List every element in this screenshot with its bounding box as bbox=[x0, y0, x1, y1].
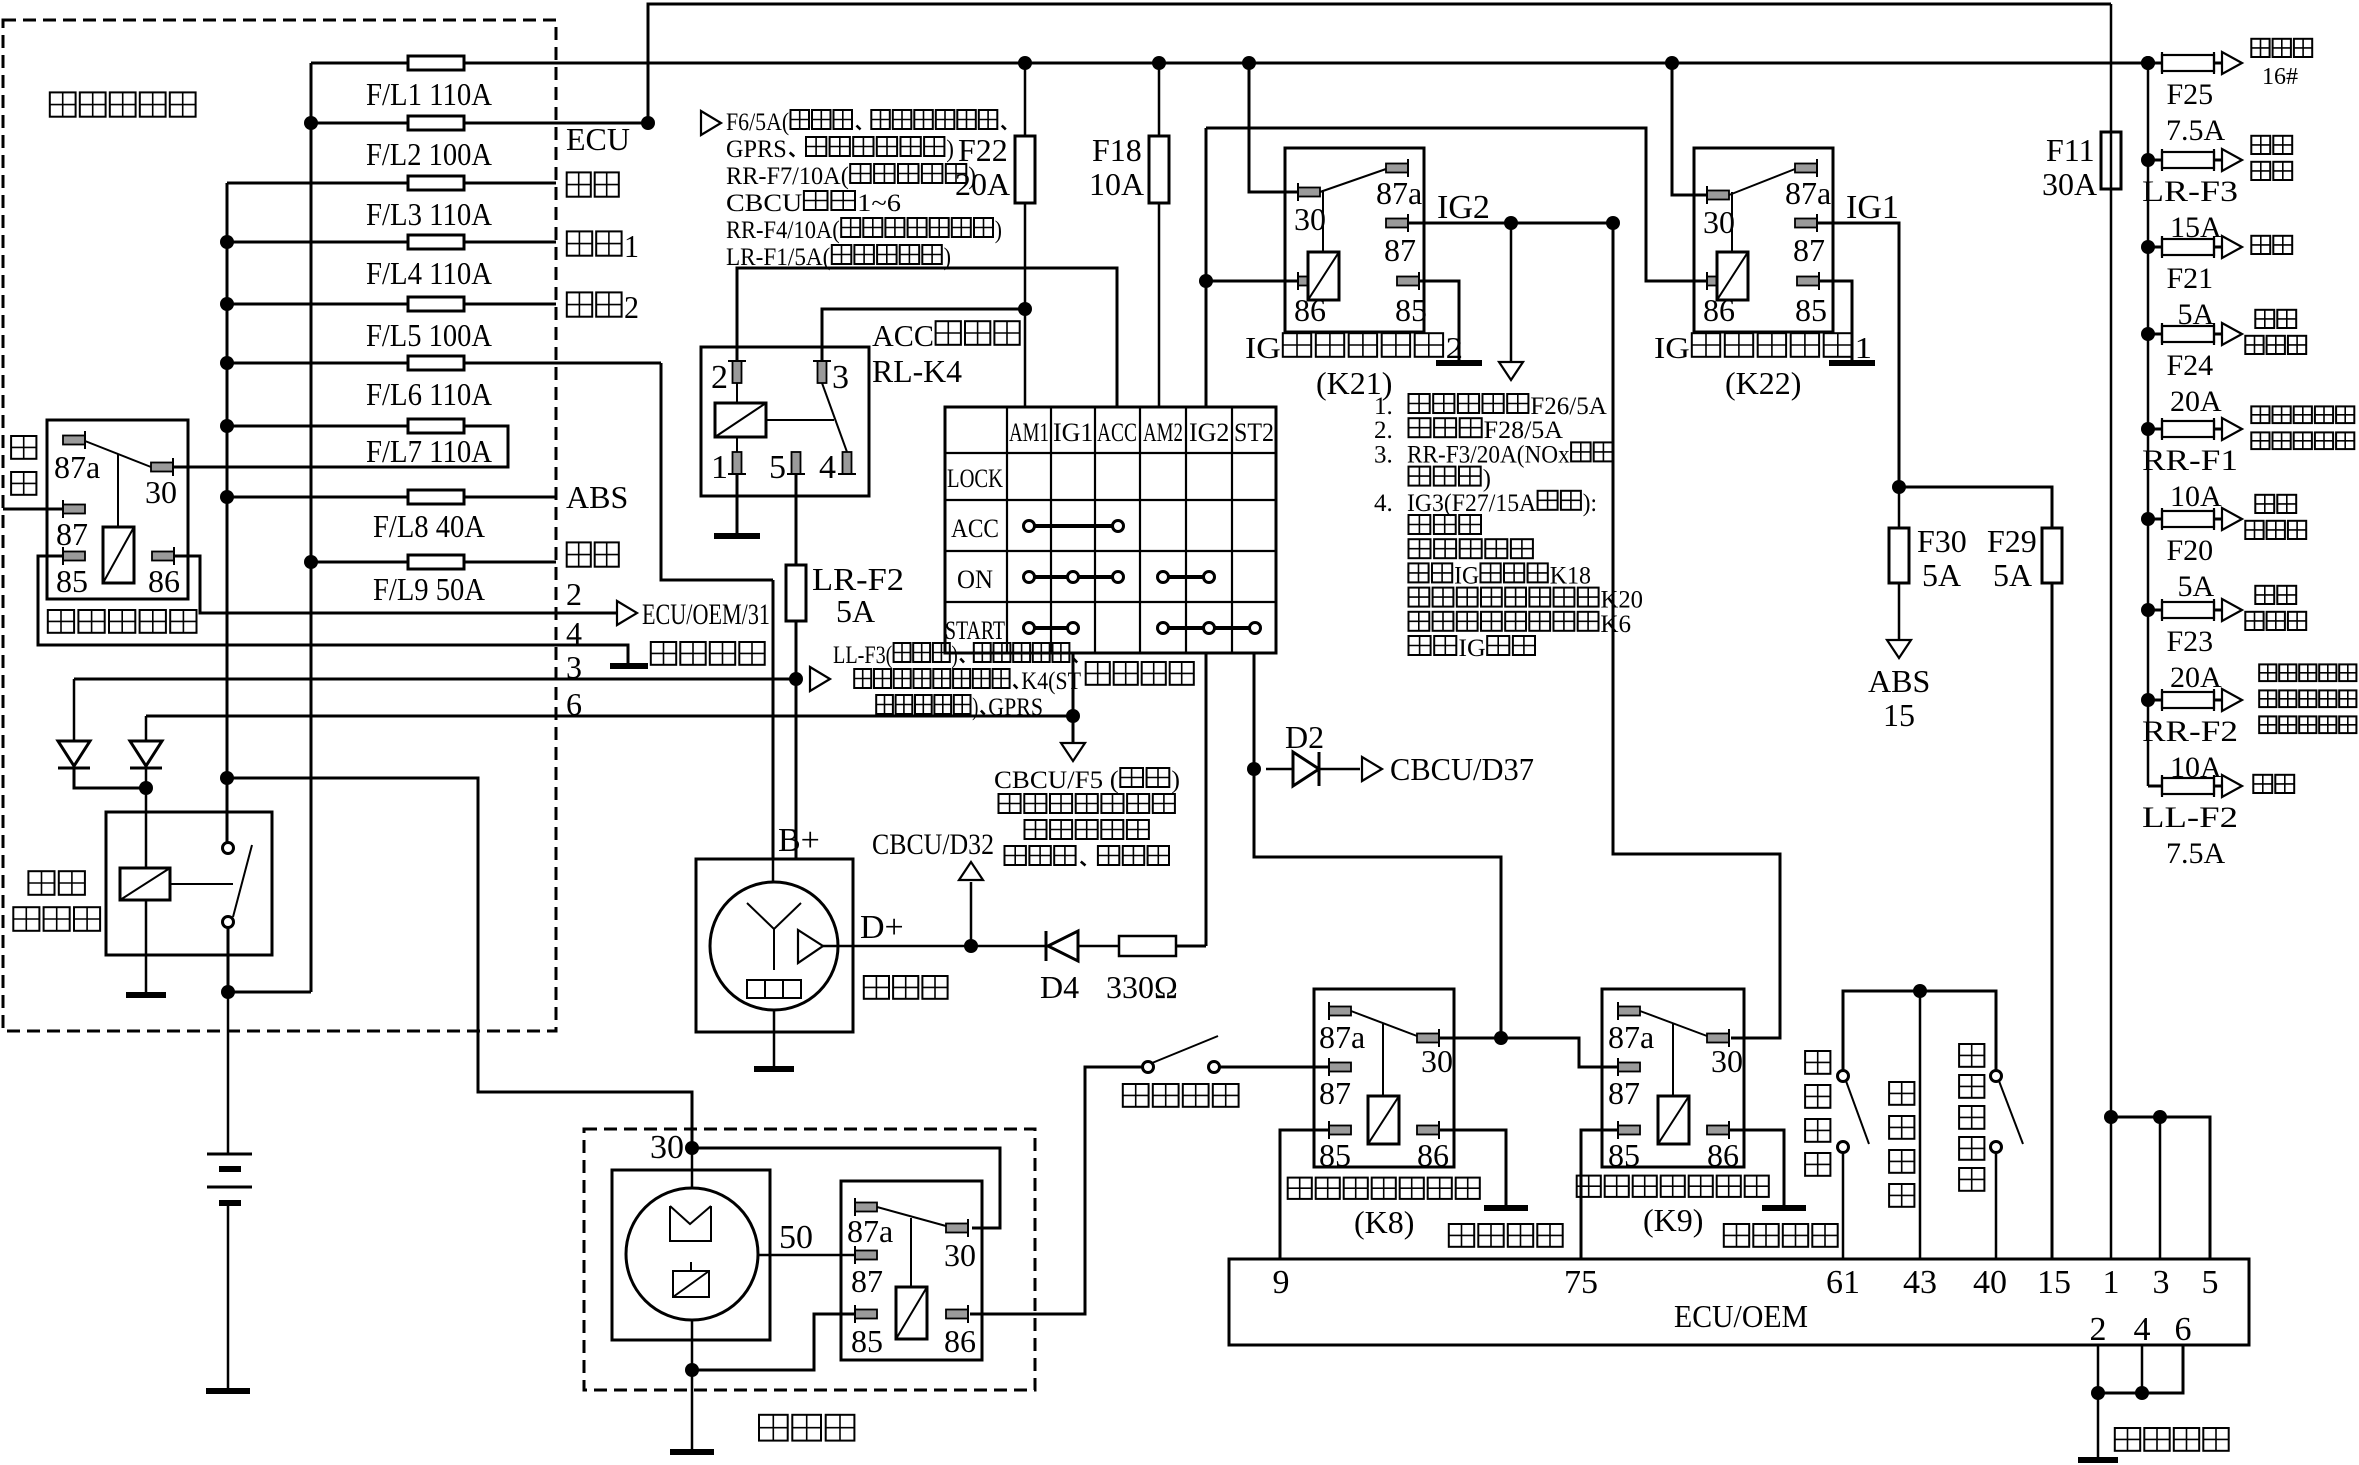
svg-text:ACC: ACC bbox=[951, 514, 999, 543]
fuse F22 20A bbox=[1015, 136, 1035, 203]
svg-text:D4: D4 bbox=[1040, 969, 1079, 1005]
svg-text:40: 40 bbox=[1973, 1264, 2007, 1301]
junction starter 30 bbox=[685, 1141, 699, 1155]
ground bar K22 85 bbox=[1829, 360, 1875, 366]
svg-text:4: 4 bbox=[2134, 1311, 2151, 1348]
svg-text:30: 30 bbox=[1711, 1043, 1743, 1079]
arrow output F20 bbox=[2222, 508, 2242, 530]
wire left fuse bus x227 bbox=[226, 183, 229, 848]
wire IG2 node to K21 86 bbox=[1206, 280, 1298, 283]
wire row6 wake line from right diode to IG1 column bbox=[146, 715, 1075, 718]
svg-text:IG: IG bbox=[1458, 635, 1485, 662]
svg-text:GPRS: GPRS bbox=[726, 136, 787, 163]
svg-text:5: 5 bbox=[769, 449, 786, 486]
wire alternator ground bbox=[773, 1010, 776, 1066]
svg-text:7.5A: 7.5A bbox=[2166, 114, 2226, 147]
label 预热继电器 bbox=[48, 610, 74, 633]
wire to ECU 5 bbox=[2111, 1117, 2210, 1259]
svg-text:87: 87 bbox=[851, 1263, 883, 1299]
label 总开关 bbox=[13, 907, 39, 931]
svg-text:F6/5A(: F6/5A( bbox=[726, 109, 789, 136]
relay blade starter bbox=[877, 1207, 946, 1226]
wire ST2 column down to D2 node bbox=[1253, 653, 1256, 769]
arrow output LR-F3 bbox=[2222, 149, 2242, 171]
wire K9 86 to ground bbox=[1729, 1130, 1784, 1206]
resistor 330 ohm bbox=[1119, 936, 1176, 956]
relay coil master switch bbox=[120, 868, 170, 900]
wire F/L6 to B+ riser bbox=[661, 363, 773, 580]
relay starter protection K8 box bbox=[1314, 989, 1454, 1167]
wire F/L7 row to preheat relay 30 bbox=[173, 426, 508, 467]
relay blade ACC bbox=[822, 383, 847, 452]
fuse F23 20A bbox=[2162, 599, 2214, 621]
fuse LR-F3 15A bbox=[2162, 149, 2214, 171]
label 缸体搭铁 ECU bbox=[2115, 1428, 2140, 1451]
fuse F/L9 50A bbox=[408, 555, 464, 569]
alternator regulator rect bbox=[747, 980, 801, 998]
arrow F6/5A list bbox=[701, 111, 721, 135]
junction bus RR-F2 bbox=[2141, 693, 2155, 707]
relay coil ACC bbox=[715, 403, 766, 437]
wire switch common bus bbox=[1843, 991, 1996, 1071]
svg-text:30: 30 bbox=[1421, 1043, 1453, 1079]
svg-text:10A: 10A bbox=[1089, 166, 1144, 202]
wire K8 86 to ground bbox=[1439, 1130, 1506, 1206]
svg-text:LR-F3: LR-F3 bbox=[2142, 175, 2238, 208]
svg-text:2: 2 bbox=[624, 289, 639, 325]
svg-text:85: 85 bbox=[56, 563, 88, 599]
svg-text:ECU/OEM/31: ECU/OEM/31 bbox=[642, 598, 770, 631]
junction bus RR-F1 bbox=[2141, 422, 2155, 436]
svg-text:85: 85 bbox=[1795, 292, 1827, 328]
ignition contacts row START bbox=[1033, 626, 1068, 630]
junction F/L9 bus bbox=[304, 555, 318, 569]
pin 87a K9 bbox=[1618, 1002, 1640, 1020]
label destination F21 bbox=[2251, 236, 2270, 254]
pin 87 K21 bbox=[1386, 214, 1408, 232]
diode D-left row3 bbox=[73, 679, 76, 741]
wire IG1 column to wake node bbox=[1072, 653, 1075, 743]
pin 87a K22 bbox=[1795, 159, 1817, 177]
junction IG2 column K21 86 bbox=[1199, 274, 1213, 288]
relay IG power relay 1 K22 box bbox=[1694, 148, 1833, 332]
junction feeder F18 bbox=[1152, 56, 1166, 70]
fuse F/L4 110A bbox=[408, 235, 464, 249]
svg-text:87a: 87a bbox=[54, 449, 100, 485]
label destination F24 bbox=[2255, 310, 2274, 328]
svg-text:86: 86 bbox=[148, 563, 180, 599]
svg-text:30: 30 bbox=[650, 1129, 684, 1166]
svg-text:2: 2 bbox=[711, 359, 728, 396]
svg-text:5A: 5A bbox=[1922, 557, 1961, 593]
svg-text:3: 3 bbox=[2153, 1264, 2170, 1301]
label 远程起动继电器 bbox=[1577, 1176, 1601, 1197]
svg-text:F18: F18 bbox=[1092, 132, 1142, 168]
svg-text:ON: ON bbox=[957, 565, 993, 594]
pin 5 ACC relay bbox=[787, 452, 805, 474]
contact upper master switch bbox=[223, 843, 234, 854]
wire D4 to resistor bbox=[1078, 945, 1119, 948]
svg-text:9: 9 bbox=[1273, 1264, 1290, 1301]
junction bus F24 bbox=[2141, 327, 2155, 341]
svg-text:30: 30 bbox=[1294, 201, 1326, 237]
junction x227 bus F/L6 bbox=[220, 356, 234, 370]
junction bus F21 bbox=[2141, 240, 2155, 254]
wire K22 87 IG1 output bbox=[1817, 223, 1899, 487]
svg-text:CBCU: CBCU bbox=[726, 190, 802, 217]
wire switch ground to ECU 43 bbox=[1919, 991, 1922, 1259]
wire coil to blade ACC bbox=[766, 419, 834, 421]
wire F/L8 row bbox=[227, 496, 556, 499]
svg-text:RL-K4: RL-K4 bbox=[872, 353, 962, 389]
svg-text:): ) bbox=[1483, 466, 1491, 493]
switch 空档开关 bbox=[1143, 1062, 1154, 1073]
svg-text:): ) bbox=[1171, 767, 1180, 794]
relay coil preheat bbox=[103, 527, 134, 583]
junction F22 ACC relay pin3 bbox=[1018, 302, 1032, 316]
svg-text:LOCK: LOCK bbox=[947, 464, 1003, 493]
pin 30 starter relay bbox=[946, 1219, 968, 1237]
label 整车1 bbox=[567, 231, 592, 255]
ground bar K8 86 bbox=[1484, 1205, 1528, 1211]
battery bbox=[227, 992, 230, 1153]
pin 87a K21 bbox=[1386, 159, 1408, 177]
svg-text:D2: D2 bbox=[1285, 719, 1324, 755]
pin 85 preheat bbox=[63, 547, 85, 565]
wire battery node to main bus bbox=[228, 991, 311, 994]
svg-text:IG2: IG2 bbox=[1189, 418, 1229, 447]
switch blade master switch bbox=[233, 845, 252, 917]
fuse F/L8 40A bbox=[408, 490, 464, 504]
svg-text:F28/5A: F28/5A bbox=[1484, 417, 1563, 444]
svg-text:RR-F1: RR-F1 bbox=[2142, 444, 2238, 477]
wire ECU bottom pins to chassis ground bbox=[2097, 1345, 2100, 1458]
label 起动保护继电器 bbox=[1288, 1178, 1312, 1199]
junction starter ground bbox=[685, 1363, 699, 1377]
svg-text:IG: IG bbox=[1454, 562, 1479, 589]
wire motor 50 to relay 87 bbox=[758, 1254, 855, 1257]
wire relay 85 to motor ground node bbox=[692, 1314, 855, 1370]
svg-text:(K8): (K8) bbox=[1354, 1204, 1414, 1240]
svg-text:START: START bbox=[945, 616, 1005, 645]
wire starter 30 loop to relay 30 bbox=[692, 1148, 1000, 1228]
svg-text:86: 86 bbox=[1707, 1137, 1739, 1173]
alternator 发电机 box bbox=[696, 859, 853, 1032]
label 底盘配电盒 bbox=[50, 92, 76, 116]
arrow output F23 bbox=[2222, 599, 2242, 621]
wire resistor to IG2 column bbox=[1176, 945, 1206, 948]
pin 86 starter relay bbox=[946, 1305, 968, 1323]
pin 87 preheat bbox=[63, 500, 85, 518]
label destination F23 bbox=[2255, 586, 2274, 604]
wire ECU 9 to K8 85 bbox=[1280, 1130, 1329, 1259]
svg-text:30: 30 bbox=[145, 474, 177, 510]
svg-text:2.: 2. bbox=[1374, 417, 1393, 444]
relay blade K8 bbox=[1351, 1011, 1417, 1036]
pin 85 K21 bbox=[1397, 272, 1419, 290]
wire K8 30 to K9 87 bbox=[1439, 1038, 1618, 1067]
wire aux start switch to ECU 40 bbox=[1995, 1152, 1998, 1259]
svg-text:2: 2 bbox=[2090, 1311, 2107, 1348]
wire coil to blade K22 bbox=[1731, 192, 1733, 252]
diode D-right row6 bbox=[145, 716, 148, 741]
starter 起动机 dashed box bbox=[584, 1129, 1035, 1390]
svg-text:ECU/OEM: ECU/OEM bbox=[1674, 1298, 1808, 1334]
svg-text:IG1: IG1 bbox=[1846, 189, 1899, 226]
wire IG1 to F30 ABS bbox=[1898, 487, 1901, 640]
relay ACC RL-K4 box bbox=[701, 347, 869, 496]
svg-text:LL-F3(: LL-F3( bbox=[833, 642, 892, 669]
label 电源 bbox=[28, 871, 54, 895]
wire kill switch to ECU 61 bbox=[1842, 1152, 1845, 1259]
wire coil to pin1 bbox=[736, 437, 738, 452]
wire lower contact to battery node bbox=[227, 927, 230, 992]
svg-text:ST2: ST2 bbox=[1234, 418, 1274, 447]
wire motor to chassis ground bbox=[691, 1320, 694, 1450]
svg-text:75: 75 bbox=[1564, 1264, 1598, 1301]
svg-text:IG: IG bbox=[1654, 330, 1690, 365]
wire ACC pin5 through LR-F2 down bbox=[795, 474, 798, 859]
svg-text:AM2: AM2 bbox=[1143, 418, 1183, 447]
label destination F20 bbox=[2255, 495, 2274, 513]
svg-text:(K22): (K22) bbox=[1725, 365, 1801, 401]
wire F/L6 riser to alternator B+ upper bbox=[772, 580, 775, 859]
pin 85 K22 bbox=[1797, 272, 1819, 290]
switch 熄火开关 bbox=[1838, 1071, 1849, 1082]
svg-text:5: 5 bbox=[2202, 1264, 2219, 1301]
ground bar K9 86 bbox=[1762, 1205, 1806, 1211]
svg-text:85: 85 bbox=[851, 1323, 883, 1359]
svg-text:F/L4 110A: F/L4 110A bbox=[366, 255, 492, 291]
relay coil K9 bbox=[1658, 1096, 1689, 1144]
wire F/L4 row bbox=[227, 241, 556, 244]
wire IG2 to K9 30 bbox=[1613, 223, 1780, 1038]
wire coil to ground master switch bbox=[145, 900, 148, 993]
diode D2 bbox=[1266, 768, 1293, 771]
pin 85 K8 bbox=[1329, 1121, 1351, 1139]
arrow IG2 load list bbox=[1499, 362, 1523, 380]
svg-text:F23: F23 bbox=[2167, 625, 2214, 658]
wire F/L6 row bbox=[227, 362, 661, 365]
svg-text:RR-F7/10A(: RR-F7/10A( bbox=[726, 163, 849, 190]
wire coil to blade K9 bbox=[1672, 1024, 1674, 1096]
junction x227 to starter feed bbox=[220, 771, 234, 785]
relay starter solenoid box bbox=[841, 1181, 982, 1360]
wire neutral switch to K8 87 bbox=[1219, 1066, 1329, 1069]
fuse F/L2 100A bbox=[408, 116, 464, 130]
svg-text:85: 85 bbox=[1608, 1137, 1640, 1173]
fuse F/L3 110A bbox=[408, 176, 464, 190]
pin 87a K8 bbox=[1329, 1002, 1351, 1020]
ignition contacts row ON bbox=[1033, 575, 1113, 579]
svg-text:43: 43 bbox=[1903, 1264, 1937, 1301]
svg-text:15: 15 bbox=[2037, 1264, 2071, 1301]
wire F/L9 row bbox=[311, 561, 556, 564]
fuse F29 5A bbox=[2042, 528, 2062, 583]
wire fuse RR-F2 feed bbox=[2148, 699, 2162, 702]
svg-text:30: 30 bbox=[944, 1237, 976, 1273]
junction ECU pin2 bbox=[2091, 1386, 2105, 1400]
svg-text:): ) bbox=[995, 217, 1002, 244]
arrow output RR-F1 bbox=[2222, 418, 2242, 440]
relay blade K9 bbox=[1640, 1011, 1707, 1036]
wire fuse F20 feed bbox=[2148, 518, 2162, 521]
pin 87a starter relay bbox=[855, 1198, 877, 1216]
arrow row3 loads bbox=[810, 667, 830, 691]
fuse F24 20A bbox=[2162, 323, 2214, 345]
svg-text:F29: F29 bbox=[1987, 523, 2037, 559]
pin 86 K22 bbox=[1707, 272, 1729, 290]
svg-text:RR-F3/20A(NOx: RR-F3/20A(NOx bbox=[1407, 441, 1570, 468]
svg-text:AM1: AM1 bbox=[1009, 418, 1049, 447]
wire K21 85 to ground bbox=[1419, 281, 1459, 361]
junction ST2 D2 bbox=[1247, 762, 1261, 776]
wire coil to blade K8 bbox=[1382, 1024, 1384, 1096]
svg-text:ACC: ACC bbox=[872, 318, 934, 353]
pin 85 starter relay bbox=[855, 1305, 877, 1323]
svg-text:87a: 87a bbox=[1376, 175, 1422, 211]
junction F/L2 riser bbox=[641, 116, 655, 130]
junction IG1 wake line bbox=[1066, 709, 1080, 723]
starter motor circle bbox=[626, 1188, 758, 1320]
svg-text:87: 87 bbox=[1384, 232, 1416, 268]
svg-text:LL-F2: LL-F2 bbox=[2142, 801, 2238, 834]
svg-text:K18: K18 bbox=[1550, 562, 1591, 589]
label 空档开关 bbox=[1123, 1084, 1149, 1107]
wire IG1 branch through F29 to ECU 15 bbox=[1899, 487, 2052, 1259]
pin 86 preheat bbox=[152, 547, 174, 565]
svg-text:F/L6 110A: F/L6 110A bbox=[366, 376, 492, 412]
svg-text:1: 1 bbox=[711, 449, 728, 486]
svg-text:F21: F21 bbox=[2167, 262, 2214, 295]
wire coil to blade master switch bbox=[170, 883, 233, 885]
pin 4 ACC relay bbox=[838, 452, 856, 474]
arrow output RR-F2 bbox=[2222, 689, 2242, 711]
junction feeder K21 bbox=[1242, 56, 1256, 70]
wire right fuse bus bbox=[2147, 63, 2150, 786]
relay 预热继电器 box bbox=[47, 420, 188, 599]
svg-text:F/L7 110A: F/L7 110A bbox=[366, 433, 492, 469]
power master switch 电源总开关 box bbox=[106, 812, 272, 955]
label 点火开关 bbox=[1086, 662, 1110, 685]
label 开关搭铁 bbox=[1889, 1082, 1914, 1105]
junction battery node bbox=[221, 985, 235, 999]
label 备用 F/L3 bbox=[567, 172, 591, 196]
ground bar battery bbox=[206, 1388, 250, 1394]
wire ACC pin1 to ground bbox=[736, 474, 739, 534]
ground bar row 4 bbox=[610, 663, 648, 669]
label 预热 bbox=[11, 436, 36, 459]
label 整车2 bbox=[567, 292, 592, 316]
relay coil K8 bbox=[1368, 1096, 1399, 1144]
svg-text:86: 86 bbox=[1417, 1137, 1449, 1173]
label destination RR-F1 bbox=[2251, 406, 2269, 423]
wire fuse F25 feed bbox=[2148, 62, 2162, 65]
label 熄火开关 bbox=[1805, 1051, 1830, 1074]
svg-text:4.: 4. bbox=[1374, 490, 1393, 517]
wire 30 to motor bbox=[691, 1148, 694, 1188]
junction ECU pin4 bbox=[2135, 1386, 2149, 1400]
wire preheat 85 to pin4 chassis ground row bbox=[38, 556, 628, 664]
svg-text:330Ω: 330Ω bbox=[1106, 969, 1178, 1005]
pin 86 K21 bbox=[1298, 272, 1320, 290]
svg-text:B+: B+ bbox=[778, 822, 820, 859]
label 起动机 bbox=[759, 1415, 788, 1441]
junction switch ground bus bbox=[1913, 984, 1927, 998]
junction K8 30 ST2 bbox=[1494, 1031, 1508, 1045]
svg-text:ACC: ACC bbox=[1097, 418, 1137, 447]
wire IG2 column down to D+ resistor line bbox=[1205, 653, 1208, 946]
pin 87 starter relay bbox=[855, 1246, 877, 1264]
svg-text:3.: 3. bbox=[1374, 441, 1393, 468]
relay blade preheat bbox=[85, 441, 151, 467]
ground bar ECU bbox=[2078, 1457, 2118, 1463]
junction x227 bus F/L8 bbox=[220, 490, 234, 504]
wire ECU 75 to K9 85 bbox=[1581, 1130, 1618, 1259]
label destination RR-F2 bbox=[2259, 664, 2276, 681]
arrow CBCU/D32 bbox=[959, 862, 983, 880]
svg-text:87a: 87a bbox=[1608, 1019, 1654, 1055]
svg-text:20A: 20A bbox=[955, 166, 1010, 202]
wire F18 branch to ignition AM2 bbox=[1158, 63, 1161, 407]
wire F/L2 output riser and top bus to F11 bbox=[648, 4, 2111, 123]
junction IG2 list bbox=[1504, 216, 1518, 230]
svg-text:30A: 30A bbox=[2042, 166, 2097, 202]
svg-text:1~6: 1~6 bbox=[857, 190, 901, 217]
svg-text:7.5A: 7.5A bbox=[2166, 837, 2226, 870]
svg-text:F/L2 100A: F/L2 100A bbox=[366, 136, 492, 172]
junction bus LR-F3 bbox=[2141, 153, 2155, 167]
ground bar K21 85 bbox=[1436, 360, 1482, 366]
pin 3 ACC relay bbox=[813, 361, 831, 383]
svg-text:87: 87 bbox=[1793, 232, 1825, 268]
svg-text:CBCU/D32: CBCU/D32 bbox=[872, 828, 994, 861]
wire fuse LR-F3 feed bbox=[2148, 159, 2162, 162]
ground bar ACC pin1 bbox=[714, 533, 760, 539]
wire K21 87 IG2 output bbox=[1408, 222, 1613, 225]
relay remote start K9 box bbox=[1602, 989, 1744, 1167]
chassis power distribution box dashed border bbox=[3, 20, 556, 1031]
svg-text:3: 3 bbox=[832, 359, 849, 396]
svg-text:IG: IG bbox=[1245, 330, 1281, 365]
contact lower master switch bbox=[223, 917, 234, 928]
svg-text:87: 87 bbox=[1608, 1075, 1640, 1111]
svg-text:F/L9 50A: F/L9 50A bbox=[373, 571, 485, 607]
relay IG power relay 2 K21 box bbox=[1285, 148, 1424, 332]
svg-text:F/L8 40A: F/L8 40A bbox=[373, 508, 485, 544]
svg-text:F30: F30 bbox=[1917, 523, 1967, 559]
ignition contacts row ACC bbox=[1033, 524, 1113, 528]
svg-text:5A: 5A bbox=[836, 593, 875, 629]
alternator Y symbol bbox=[747, 903, 801, 929]
svg-text:16#: 16# bbox=[2262, 64, 2298, 90]
junction pins 1 3 5 bbox=[2104, 1110, 2118, 1124]
svg-text:5A: 5A bbox=[1993, 557, 2032, 593]
svg-text:2: 2 bbox=[566, 576, 582, 612]
junction bus F23 bbox=[2141, 603, 2155, 617]
wire fuse F23 feed bbox=[2148, 609, 2162, 612]
wire D+ line bbox=[823, 945, 1046, 948]
relay coil starter bbox=[896, 1287, 927, 1339]
wire ACC pin3 to F22 node bbox=[822, 309, 1025, 361]
svg-text:4: 4 bbox=[819, 449, 836, 486]
fuse F/L5 100A bbox=[408, 297, 464, 311]
svg-text:CBCU/D37: CBCU/D37 bbox=[1390, 751, 1534, 787]
wire fuse RR-F1 feed bbox=[2148, 428, 2162, 431]
wire left diode cathode to junction bbox=[74, 768, 146, 788]
svg-text:87a: 87a bbox=[1319, 1019, 1365, 1055]
wire F/L5 row bbox=[227, 303, 556, 306]
